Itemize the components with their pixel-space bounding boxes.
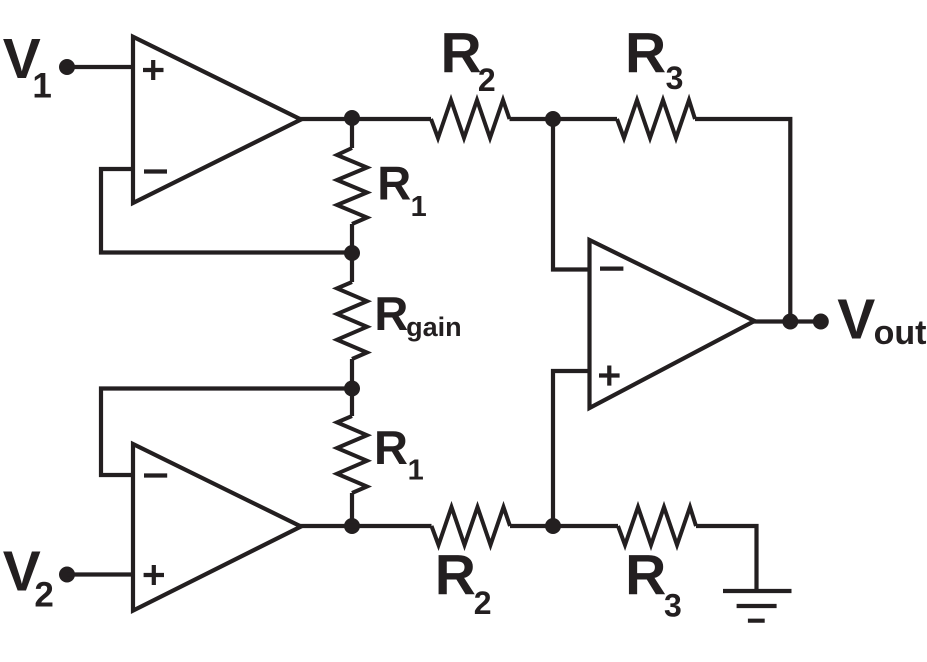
node U2 output dot	[344, 518, 360, 534]
svg-text:1: 1	[411, 191, 427, 223]
svg-text:gain: gain	[406, 312, 462, 342]
label R2 top	[441, 22, 496, 98]
node V1 input dot	[59, 59, 75, 75]
resistor R1 (bottom)	[337, 416, 367, 493]
svg-text:2: 2	[478, 62, 496, 98]
node U3 output dot	[782, 314, 798, 330]
label Rgain	[374, 287, 461, 342]
svg-text:R: R	[441, 22, 482, 86]
svg-text:out: out	[874, 314, 927, 352]
label R3 top	[625, 21, 683, 95]
label R1 top	[377, 157, 426, 223]
wire U2 inverting feedback	[101, 389, 352, 476]
svg-text:R: R	[374, 287, 408, 340]
node A dot	[344, 245, 360, 261]
wire V2 to U2 + input	[67, 572, 133, 576]
node C dot	[545, 111, 561, 127]
wire U3 output	[753, 319, 821, 323]
label R1 bottom	[374, 421, 424, 486]
svg-text:1: 1	[32, 67, 51, 106]
wire U3 non-inverting input	[553, 371, 591, 526]
svg-text:1: 1	[408, 454, 424, 486]
op-amp U3	[590, 240, 755, 408]
svg-text:R: R	[377, 157, 411, 210]
label V2	[3, 540, 54, 615]
ground	[723, 591, 792, 621]
wire node C to U3 inverting input	[553, 119, 591, 270]
label R2 bottom	[435, 544, 492, 621]
node U1 output dot	[344, 110, 360, 126]
wire node A to Rgain	[350, 253, 354, 282]
svg-text:2: 2	[474, 585, 492, 621]
node Vout terminal dot	[813, 314, 829, 330]
wire R3 to feedback corner	[695, 119, 790, 322]
wire U1 output rail	[298, 117, 431, 121]
wire node B to R1 bottom	[350, 389, 354, 417]
wire node to R1 top	[350, 119, 354, 148]
resistor R1 (top)	[337, 148, 367, 224]
label R3 bottom	[625, 544, 682, 624]
wire R1 bottom to output node	[350, 493, 354, 526]
svg-text:V: V	[837, 288, 875, 352]
label Vout	[837, 288, 926, 352]
svg-text:R: R	[374, 421, 408, 474]
resistor R2 (top)	[431, 100, 510, 138]
svg-text:3: 3	[666, 60, 684, 96]
resistor Rgain	[337, 282, 367, 359]
resistor R3 (top)	[617, 100, 695, 138]
op-amp U2	[133, 444, 301, 611]
wire R2 to node C	[510, 117, 618, 121]
wire R1 to node A	[350, 224, 354, 253]
node B dot	[344, 381, 360, 397]
op-amp U1	[133, 37, 301, 203]
svg-text:3: 3	[664, 588, 682, 624]
svg-text:R: R	[625, 544, 666, 608]
wire R2 bottom to node D	[510, 524, 618, 528]
resistor R2 (bottom)	[432, 507, 511, 545]
wire R3 bottom to ground	[696, 526, 757, 591]
wire U2 output rail	[299, 524, 432, 528]
label V1	[3, 27, 52, 105]
svg-text:R: R	[435, 544, 476, 608]
node V2 input dot	[59, 567, 75, 583]
node D dot	[545, 518, 561, 534]
svg-text:2: 2	[34, 576, 53, 615]
wire Rgain to node B	[350, 359, 354, 389]
wire U1 inverting feedback	[101, 169, 352, 253]
wire V1 to U1 + input	[67, 65, 133, 69]
resistor R3 (bottom)	[618, 507, 696, 545]
svg-text:R: R	[625, 21, 666, 85]
